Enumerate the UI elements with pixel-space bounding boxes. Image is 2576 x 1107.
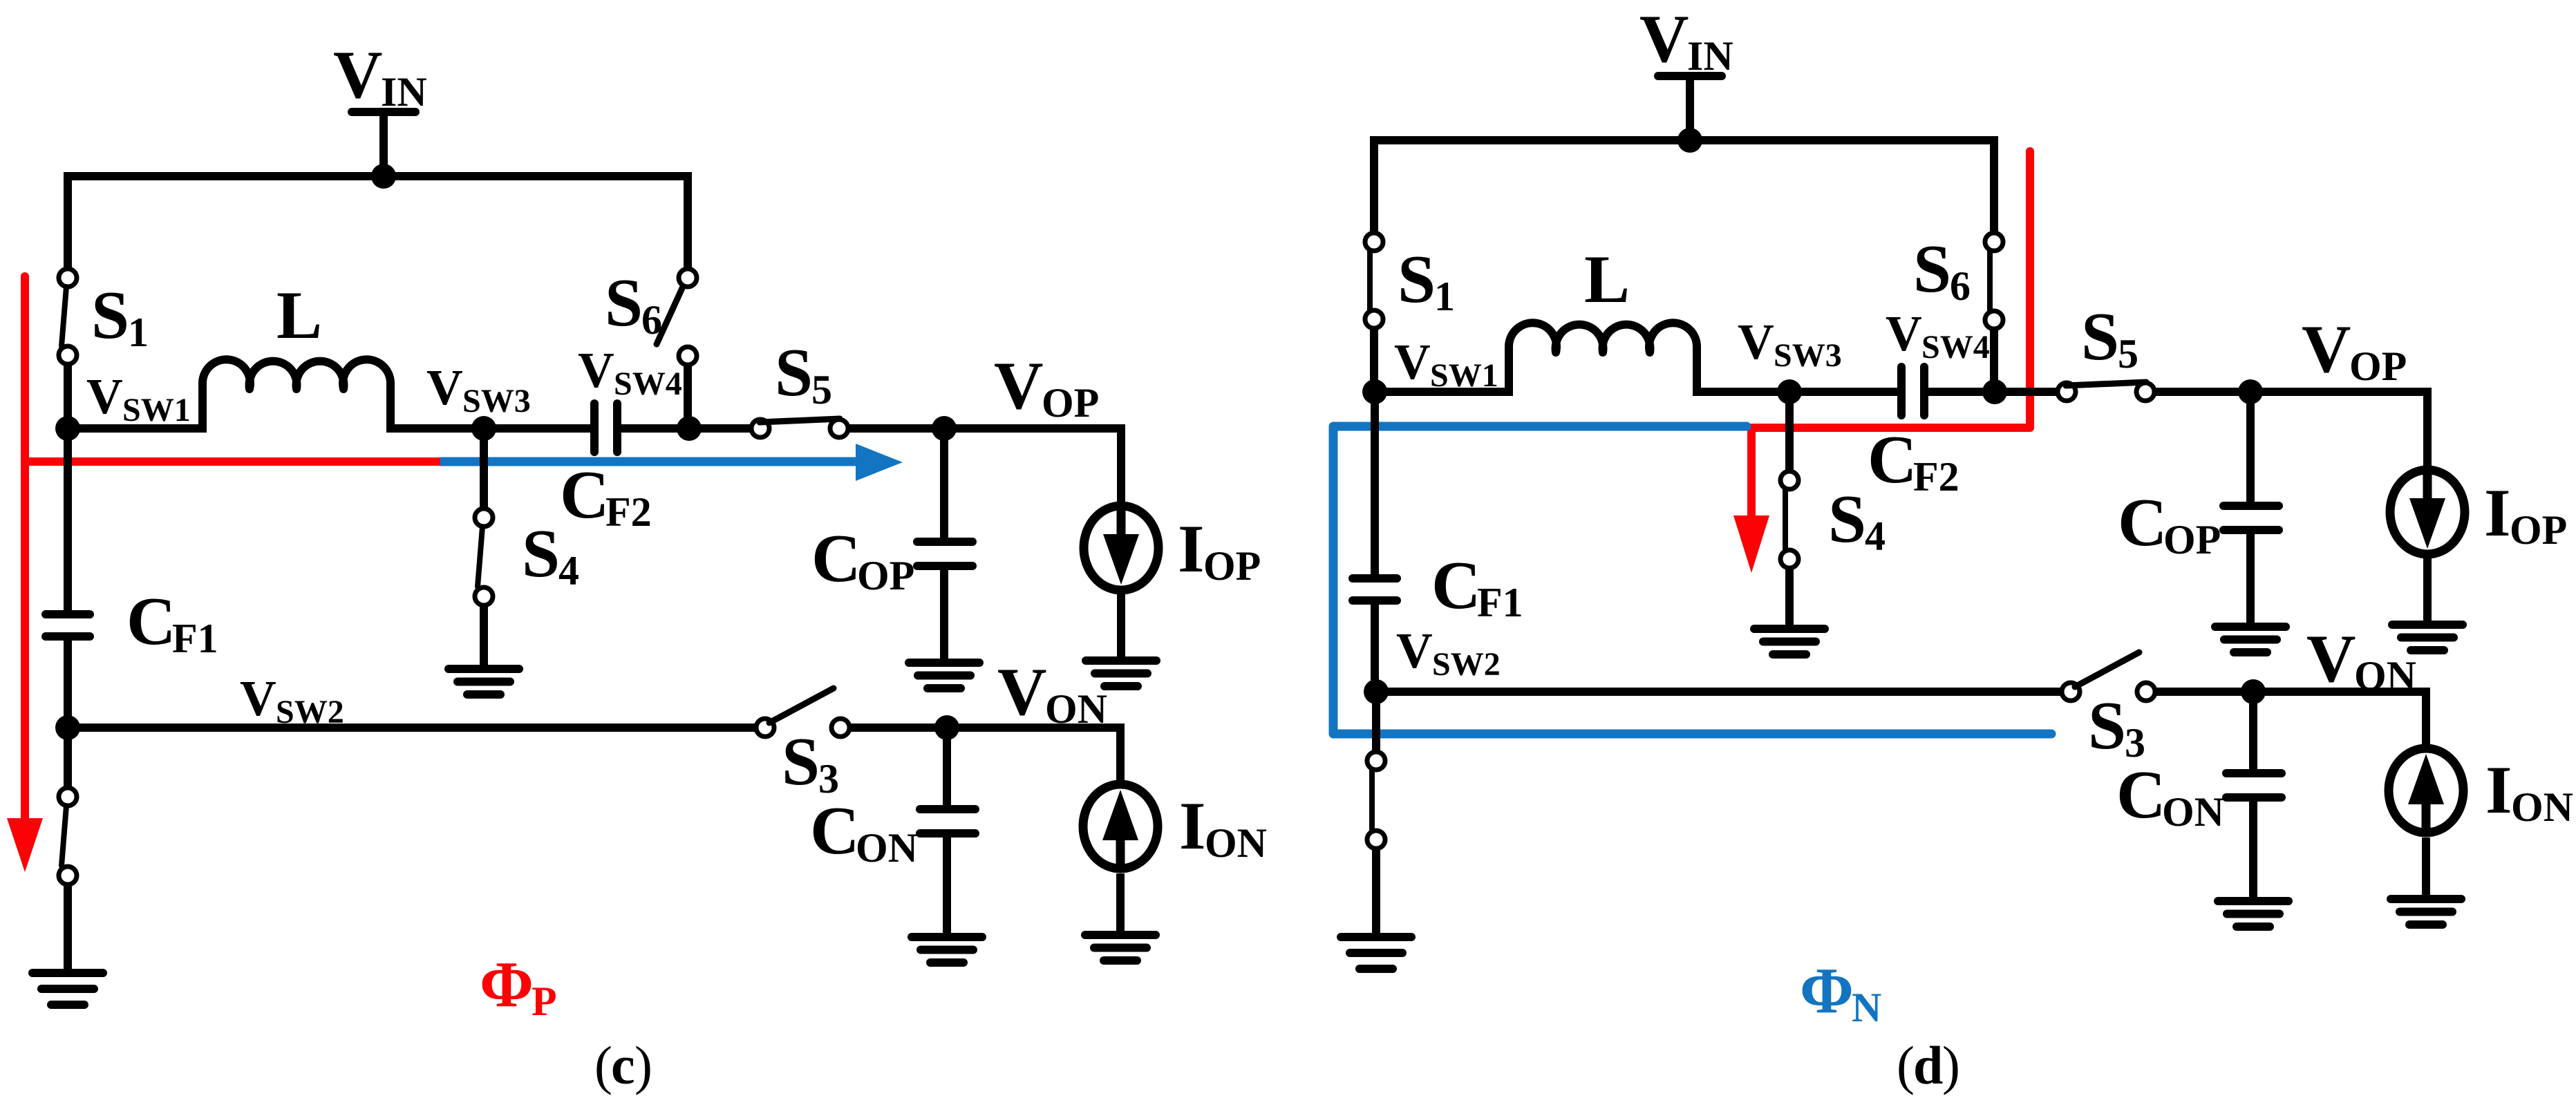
svg-text:ON: ON xyxy=(856,825,918,871)
wire VOP down to COP (d) xyxy=(2246,392,2255,502)
svg-text:ON: ON xyxy=(2354,653,2416,699)
svg-text:S: S xyxy=(782,724,820,799)
wire VSW2 rail to S3 (c) xyxy=(68,723,756,732)
node VSW4 dot (c) xyxy=(677,416,702,441)
svg-text:C: C xyxy=(810,793,860,869)
label VSW2 (c) xyxy=(240,670,344,730)
capacitor CF2 (d) xyxy=(1901,367,1924,415)
switch S3 (c, open) xyxy=(756,688,849,737)
svg-text:V: V xyxy=(1886,305,1922,361)
wire VSW1 to inductor (c) xyxy=(68,424,203,433)
wire COP to ground (d) xyxy=(2246,534,2255,627)
svg-text:5: 5 xyxy=(2118,331,2138,377)
top rail wire (d) xyxy=(1374,140,1994,234)
svg-text:IN: IN xyxy=(381,69,427,115)
wire CF1 to VSW2 (c) xyxy=(64,641,72,728)
svg-text:V: V xyxy=(1396,623,1433,679)
label IOP (c) xyxy=(1178,511,1261,589)
label VIN (d) xyxy=(1639,1,1733,79)
svg-text:6: 6 xyxy=(1950,263,1971,309)
ground below ION (c) xyxy=(1085,935,1156,961)
node VIN junction dot (d) xyxy=(1677,128,1702,153)
svg-text:OP: OP xyxy=(2510,507,2567,553)
svg-text:V: V xyxy=(2302,312,2351,387)
switch S2 (c, closed) xyxy=(59,788,77,884)
svg-text:ON: ON xyxy=(2162,789,2224,835)
phase-N red current path (d): from top right down and left xyxy=(1751,151,2030,517)
svg-text:S: S xyxy=(522,516,560,592)
svg-text:OP: OP xyxy=(857,553,914,598)
svg-text:ON: ON xyxy=(1045,686,1107,732)
label VOP (d) xyxy=(2302,312,2407,389)
node VOP dot (d) xyxy=(2238,379,2263,404)
label L (d) xyxy=(1584,242,1630,317)
caption (c) xyxy=(594,1035,652,1095)
top rail wire (c) xyxy=(68,176,688,269)
ground below S2 (c) xyxy=(32,973,103,1005)
svg-text:F2: F2 xyxy=(605,489,652,535)
svg-text:S: S xyxy=(2088,688,2126,764)
label VOP (c) xyxy=(994,348,1099,426)
svg-text:C: C xyxy=(560,457,610,533)
node VSW3 dot (c) xyxy=(471,416,496,441)
svg-text:I: I xyxy=(2484,475,2511,551)
svg-text:V: V xyxy=(86,368,123,424)
switch S4 (d, closed) xyxy=(1780,471,1798,568)
wire S4 stem (d) xyxy=(1785,392,1794,471)
ground below IOP (c) xyxy=(1086,661,1156,686)
svg-text:6: 6 xyxy=(641,297,662,343)
svg-text:SW4: SW4 xyxy=(1921,329,1990,366)
ground below COP (d) xyxy=(2215,627,2286,652)
svg-text:(: ( xyxy=(1897,1035,1915,1095)
label VIN (c) xyxy=(333,37,427,115)
wire VOP corner to IOP (c) xyxy=(1117,428,1121,503)
svg-text:1: 1 xyxy=(128,310,149,355)
label phase PHI_N (d) xyxy=(1800,955,1881,1030)
label S4 (d) xyxy=(1828,482,1886,559)
svg-text:ON: ON xyxy=(2511,784,2573,830)
label ION (c) xyxy=(1179,788,1267,866)
wire CF2 to VSW4 node (d) xyxy=(1928,388,2060,396)
svg-text:OP: OP xyxy=(1203,543,1261,589)
label L (c) xyxy=(276,278,322,353)
svg-text:(: ( xyxy=(594,1035,612,1095)
wire S1 to VSW1 (d) xyxy=(1370,329,1378,396)
switch S1 (d, closed) xyxy=(1365,233,1383,328)
svg-text:S: S xyxy=(775,335,813,410)
wire S4 to ground (c) xyxy=(480,606,488,669)
svg-text:I: I xyxy=(1178,511,1205,587)
label S5 (d) xyxy=(2081,299,2138,377)
svg-text:c: c xyxy=(611,1035,635,1095)
svg-text:SW1: SW1 xyxy=(122,392,191,428)
svg-text:V: V xyxy=(1738,314,1774,370)
current source IOP (c) xyxy=(1084,506,1158,590)
switch S3 (d, open) xyxy=(2062,652,2155,701)
phase-P blue current path arrowhead (right) xyxy=(856,444,903,481)
svg-text:I: I xyxy=(2485,753,2512,828)
capacitor CF2 (c) xyxy=(594,404,617,452)
node VSW2 dot (c) xyxy=(55,715,80,740)
label VON (c) xyxy=(997,654,1107,732)
svg-text:4: 4 xyxy=(558,548,579,594)
node VSW2 dot (d) xyxy=(1364,679,1389,704)
capacitor CON (d) xyxy=(2226,773,2282,797)
label COP (d) xyxy=(2118,485,2221,562)
wire S6 stem from rail (d) xyxy=(1990,140,1998,233)
switch S6 (d, closed) xyxy=(1985,233,2003,329)
wire VSW3 to CF2 (d) xyxy=(1789,388,1897,396)
label ION (d) xyxy=(2485,753,2573,830)
wire S5 to VOP (d) xyxy=(2155,388,2427,396)
label VSW3 (c) xyxy=(426,359,531,419)
node VSW3 dot (d) xyxy=(1777,379,1802,404)
label S1 (d) xyxy=(1398,242,1455,319)
ground below S2 (d) xyxy=(1341,937,1411,969)
label S3 (c) xyxy=(782,724,839,802)
wire S3 to VON (c) xyxy=(850,723,1120,732)
wire CON to ground (d) xyxy=(2249,802,2257,901)
node VSW1 dot (c) xyxy=(55,416,80,441)
node VON dot (d) xyxy=(2241,679,2266,704)
wire VSW1 to CF1 (c) xyxy=(64,428,72,611)
svg-text:V: V xyxy=(997,654,1047,730)
label IOP (d) xyxy=(2484,475,2567,553)
svg-text:L: L xyxy=(1584,242,1630,317)
svg-text:SW4: SW4 xyxy=(614,366,682,402)
switch S2 (d, closed) xyxy=(1367,752,1385,849)
svg-text:SW2: SW2 xyxy=(276,694,344,730)
switch S4 (c, closed) xyxy=(475,509,493,605)
svg-text:V: V xyxy=(994,348,1044,424)
wire ION to ground (d) xyxy=(2422,838,2430,899)
wire VSW2 to S2 (c) xyxy=(64,728,72,788)
svg-text:S: S xyxy=(91,278,129,353)
svg-text:SW1: SW1 xyxy=(1430,357,1498,394)
svg-text:SW3: SW3 xyxy=(1774,337,1842,374)
ground below IOP (d) xyxy=(2392,625,2463,650)
wire VOP down to COP (c) xyxy=(940,428,948,538)
capacitor CF1 (d) xyxy=(1353,578,1397,600)
svg-text:V: V xyxy=(578,342,614,398)
wire S5 to VOP (c) xyxy=(849,424,1121,433)
label VSW3 (d) xyxy=(1738,314,1842,374)
ground below S4 (d) xyxy=(1754,629,1825,654)
svg-text:F1: F1 xyxy=(172,616,218,661)
node VSW4 dot (d) xyxy=(1982,379,2007,404)
svg-text:): ) xyxy=(634,1035,652,1095)
label S6 (d) xyxy=(1913,231,1971,309)
wire CON to ground (c) xyxy=(943,838,951,937)
svg-text:SW3: SW3 xyxy=(462,383,531,419)
label VSW1 (c) xyxy=(86,368,191,428)
svg-text:S: S xyxy=(605,265,643,341)
svg-text:OP: OP xyxy=(2349,343,2407,389)
wire S6 to VSW4 node (c) xyxy=(684,366,692,428)
svg-text:d: d xyxy=(1913,1035,1943,1095)
svg-text:N: N xyxy=(1852,985,1881,1030)
label S6 (c) xyxy=(605,265,662,343)
switch S5 (d, closed) xyxy=(2058,382,2154,401)
switch S5 (c, closed) xyxy=(751,419,848,437)
phase-P red current path: vertical line on far left xyxy=(21,276,29,820)
svg-text:P: P xyxy=(532,978,557,1024)
wire S4 stem (c) xyxy=(480,428,488,509)
label VSW4 (d) xyxy=(1886,305,1990,366)
svg-text:I: I xyxy=(1179,788,1206,864)
svg-text:V: V xyxy=(240,670,276,726)
VIN supply bar (c) xyxy=(352,108,415,116)
wire CF1 to VSW2 (d) xyxy=(1371,605,1379,692)
label S5 (c) xyxy=(775,335,832,413)
svg-text:S: S xyxy=(2081,299,2119,375)
label VSW2 (d) xyxy=(1396,623,1501,683)
wire IOP to ground (c) xyxy=(1117,590,1125,661)
label COP (c) xyxy=(811,521,914,598)
svg-text:C: C xyxy=(1868,422,1917,498)
wire S6 stem from rail (c) xyxy=(684,176,692,269)
capacitor COP (d) xyxy=(2224,506,2279,530)
phase-N red current path arrowhead (down, d) xyxy=(1733,515,1769,573)
switch S1 (c, closed) xyxy=(59,269,77,364)
svg-text:4: 4 xyxy=(1865,513,1886,559)
node VIN junction dot (c) xyxy=(371,164,396,189)
svg-text:Φ: Φ xyxy=(480,949,534,1021)
node VOP dot (c) xyxy=(932,416,957,441)
ground below CON (c) xyxy=(912,937,982,963)
svg-text:V: V xyxy=(1394,334,1431,390)
wire VSW3 to CF2 (c) xyxy=(484,424,591,433)
svg-text:): ) xyxy=(1942,1035,1960,1095)
inductor L (c) xyxy=(203,359,391,433)
wire VSW2 to S2 (d) xyxy=(1372,692,1380,752)
label S3 (d) xyxy=(2088,688,2145,766)
inductor L (d) xyxy=(1509,323,1697,396)
label VSW4 (c) xyxy=(578,342,682,402)
svg-text:F1: F1 xyxy=(1477,580,1523,625)
svg-text:C: C xyxy=(2116,757,2166,833)
svg-text:C: C xyxy=(1431,548,1481,623)
svg-text:3: 3 xyxy=(818,756,839,802)
ground below COP (c) xyxy=(909,663,979,688)
node VSW1 dot (d) xyxy=(1362,379,1387,404)
svg-text:5: 5 xyxy=(811,367,832,413)
current source ION (c, arrow up) xyxy=(1083,784,1158,869)
wire VON down to CON (c) xyxy=(943,728,951,806)
capacitor CF1 (c) xyxy=(46,614,90,636)
label CF2 (c) xyxy=(560,457,652,535)
label S4 (c) xyxy=(522,516,579,594)
wire S4 to ground (d) xyxy=(1785,569,1794,629)
wire S6 to VSW4 node (d) xyxy=(1990,330,1998,392)
wire S2 to ground (d) xyxy=(1372,849,1380,937)
svg-text:OP: OP xyxy=(2163,517,2221,562)
label VSW1 (d) xyxy=(1394,334,1498,394)
svg-text:3: 3 xyxy=(2125,720,2145,766)
svg-text:F2: F2 xyxy=(1913,454,1959,500)
svg-text:V: V xyxy=(1639,1,1689,77)
ground below CON (d) xyxy=(2218,901,2288,927)
label CF1 (c) xyxy=(126,584,218,661)
label phase PHI_P (c) xyxy=(480,949,557,1024)
svg-text:Φ: Φ xyxy=(1800,955,1854,1027)
label VON (d) xyxy=(2306,621,2416,699)
phase-P red current path: horizontal segment from left line to VSW3 column xyxy=(21,457,440,466)
wire S2 to ground (c) xyxy=(64,885,72,973)
svg-text:S: S xyxy=(1398,242,1436,317)
label CON (c) xyxy=(810,793,918,871)
VIN supply bar (d) xyxy=(1658,72,1722,80)
current source IOP (d) xyxy=(2390,470,2465,554)
wire S1 to VSW1 (c) xyxy=(64,365,72,432)
phase-P blue current path: horizontal segment toward VOP xyxy=(440,457,857,466)
ground below ION (d) xyxy=(2391,899,2461,925)
VIN stem wire (c) xyxy=(379,112,388,176)
phase-N blue current path (d): box via CF1 and VSW2 xyxy=(1333,426,2051,734)
capacitor COP (c) xyxy=(917,542,972,566)
svg-text:S: S xyxy=(1913,231,1951,307)
svg-text:C: C xyxy=(2118,485,2168,560)
svg-text:OP: OP xyxy=(1042,380,1099,426)
label CON (d) xyxy=(2116,757,2224,835)
wire inductor to VSW3 (d) xyxy=(1697,388,1789,396)
svg-text:SW2: SW2 xyxy=(1432,646,1501,683)
ground below S4 (c) xyxy=(449,669,519,694)
capacitor CON (c) xyxy=(920,809,975,833)
label S1 (c) xyxy=(91,278,149,355)
caption (d) xyxy=(1897,1035,1960,1095)
wire COP to ground (c) xyxy=(940,570,948,663)
current source ION (d, arrow up) xyxy=(2389,748,2463,833)
phase-P red current path arrowhead (down) xyxy=(7,818,43,872)
svg-text:V: V xyxy=(426,359,463,415)
wire VON corner to ION (d) xyxy=(2422,692,2426,751)
wire S3 to VON (d) xyxy=(2156,688,2426,696)
svg-text:IN: IN xyxy=(1687,33,1733,79)
svg-text:ON: ON xyxy=(1205,820,1267,866)
label CF1 (d) xyxy=(1431,548,1523,625)
wire VSW1 to CF1 (d) xyxy=(1371,392,1379,575)
wire CF2 to VSW4 node (c) xyxy=(621,424,753,433)
node VON dot (c) xyxy=(934,715,959,740)
svg-text:S: S xyxy=(1828,482,1866,557)
switch S6 (c, open) xyxy=(657,269,697,365)
label CF2 (d) xyxy=(1868,422,1959,500)
svg-text:V: V xyxy=(2306,621,2356,697)
svg-text:C: C xyxy=(811,521,861,596)
wire VOP corner to IOP (d) xyxy=(2423,392,2427,466)
svg-text:C: C xyxy=(126,584,176,659)
wire VON down to CON (d) xyxy=(2249,692,2257,770)
wire VSW1 to inductor (d) xyxy=(1375,388,1509,396)
wire VSW2 rail to S3 (d) xyxy=(1376,688,2061,696)
wire ION to ground (c) xyxy=(1116,873,1125,935)
svg-text:V: V xyxy=(333,37,383,113)
svg-text:1: 1 xyxy=(1434,274,1455,319)
wire inductor to VSW3 (c) xyxy=(391,424,484,433)
wire VON corner to ION (c) xyxy=(1116,728,1120,787)
VIN stem wire (d) xyxy=(1686,76,1694,140)
wire IOP to ground (d) xyxy=(2423,554,2432,625)
svg-text:L: L xyxy=(276,278,322,353)
